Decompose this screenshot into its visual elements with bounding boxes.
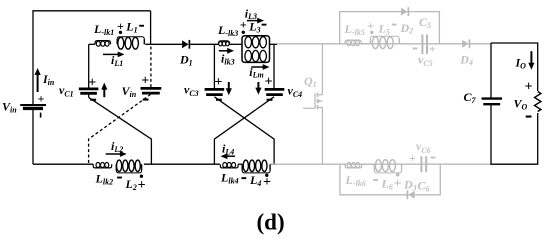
wire output box (491, 43, 538, 164)
svg-text:vC4: vC4 (288, 83, 303, 99)
svg-text:+: + (117, 19, 124, 33)
inductor L1 (117, 37, 144, 49)
svg-text:+: + (88, 75, 96, 90)
svg-text:D1: D1 (179, 53, 193, 68)
current arrow iL2 (106, 151, 127, 157)
wire cell1 left (89, 44, 95, 89)
svg-text:+: + (265, 74, 273, 89)
wire Llk4-L4 (238, 163, 242, 165)
svg-text:+: + (263, 175, 271, 190)
wire Llk6-L6 (362, 163, 375, 165)
wire bottom mid1 (144, 163, 220, 165)
svg-text:L5: L5 (378, 22, 390, 37)
node dot L2 (140, 175, 143, 178)
wire D1 to cell2 (190, 43, 218, 45)
inductor Llk4 (220, 163, 238, 168)
wire gray top (277, 43, 491, 45)
label L2 (125, 177, 137, 192)
wire D3 loop (340, 164, 440, 195)
inductor Llk3 (219, 41, 230, 46)
label C6 (418, 179, 430, 194)
label C5 - (413, 48, 418, 50)
label Llk1 (93, 22, 114, 37)
diode D1 (182, 40, 189, 49)
wire D2 loop (340, 12, 440, 44)
svg-text:+: + (394, 177, 402, 192)
svg-text:vC6: vC6 (416, 139, 431, 155)
svg-text:+: + (141, 74, 149, 89)
label C5 + (429, 42, 436, 56)
svg-text:D3: D3 (403, 178, 417, 193)
svg-text:L-lk5: L-lk5 (344, 22, 365, 37)
wire L1 to D1 (145, 43, 182, 45)
label Llk4 (220, 171, 239, 186)
wire cross solid c2b (214, 97, 274, 164)
label D2 (400, 21, 414, 36)
current arrow iL1 (103, 52, 125, 58)
current arrow iL4 (221, 153, 235, 159)
battery - tick (40, 113, 42, 118)
svg-text:+: + (214, 75, 222, 90)
label Vo (514, 97, 528, 112)
wire bottom stub right of L4 (270, 163, 276, 165)
label C4 + (265, 74, 273, 89)
label L4 (249, 173, 261, 188)
label D1 (179, 53, 193, 68)
inductor L2 (116, 160, 141, 173)
svg-text:Iin: Iin (42, 72, 55, 87)
capacitor C3 (205, 44, 225, 94)
svg-text:+: + (138, 178, 146, 193)
label Llk2 (95, 172, 114, 187)
wire Llk5-L5 (361, 43, 370, 45)
label iL3 (245, 6, 257, 21)
battery Vin (20, 105, 46, 108)
svg-text:IO: IO (515, 56, 527, 71)
wire L3 out (270, 43, 278, 45)
capacitor C6 (421, 156, 426, 172)
label Vinmid - (143, 99, 149, 101)
label + L5 - (367, 19, 396, 37)
svg-text:L-lk3: L-lk3 (217, 23, 238, 38)
svg-text:vC1: vC1 (59, 83, 74, 99)
wire Llk3 to L3 (230, 43, 243, 45)
wire top frame (33, 10, 151, 104)
label D4 (459, 52, 473, 67)
diode D4 (462, 39, 469, 48)
node dot L3 (242, 31, 245, 34)
node dot L6 (396, 173, 399, 176)
svg-text:Vin: Vin (122, 84, 137, 99)
label C1 - (90, 99, 96, 101)
svg-text:Llk4: Llk4 (220, 171, 239, 186)
label D3 (403, 178, 417, 193)
diode D2 (401, 7, 408, 16)
current arrow iL3 (247, 18, 264, 24)
wire dashed above Vin-mid (150, 47, 152, 89)
label L6 plus (394, 177, 402, 192)
svg-text:Q1: Q1 (304, 74, 317, 89)
current arrow C4 (255, 82, 261, 95)
svg-text:+: + (367, 19, 374, 33)
label iLm (249, 65, 263, 80)
svg-text:(d): (d) (257, 210, 285, 235)
label C7 (464, 90, 477, 105)
label Vo - (526, 116, 532, 118)
svg-text:D2: D2 (400, 21, 414, 36)
label C3 + (214, 75, 222, 90)
label vC1 (59, 83, 74, 99)
label Llk3 (217, 23, 238, 38)
label L4 plus (263, 175, 271, 190)
inductor Llk1 (95, 41, 111, 47)
label Iin (42, 72, 55, 87)
svg-text:L2: L2 (125, 177, 137, 192)
current arrow C3 (226, 82, 232, 95)
label L6 (381, 177, 393, 192)
svg-text:L6: L6 (381, 177, 393, 192)
label C3 - (216, 99, 222, 101)
capacitor C5 (422, 34, 427, 54)
label Llk6 (345, 173, 366, 188)
current arrow iLm (251, 64, 269, 70)
wire cross solid c2a (214, 97, 274, 164)
inductor L6 (374, 160, 401, 173)
resistor RL (535, 92, 541, 112)
label Io (515, 56, 527, 71)
label iL1 (111, 53, 123, 68)
wire C1 stub (88, 93, 90, 97)
svg-text:+: + (38, 92, 45, 106)
svg-text:+: + (409, 151, 416, 165)
svg-text:L-lk1: L-lk1 (93, 22, 114, 37)
label + L3 - (240, 17, 267, 34)
wire bottom left (33, 109, 93, 164)
wire cross solid c1 (89, 98, 152, 165)
svg-text:iL4: iL4 (222, 142, 234, 157)
battery + sign (38, 92, 45, 106)
label C6 - (431, 157, 436, 159)
capacitor C4 (265, 44, 285, 94)
current arrow C1 (101, 83, 107, 98)
svg-text:iL2: iL2 (111, 139, 123, 154)
label C1 + (88, 75, 96, 90)
current arrow Io (528, 51, 534, 70)
capacitor C7 (482, 99, 503, 105)
svg-text:ilk3: ilk3 (221, 52, 235, 67)
current arrow ilk3 (219, 48, 234, 54)
label vC5 (418, 53, 433, 69)
label Llk5 (344, 22, 365, 37)
svg-text:Llk2: Llk2 (95, 172, 114, 187)
label iL2 (111, 139, 123, 154)
capacitor C1 (79, 89, 99, 93)
svg-text:L-lk6: L-lk6 (345, 173, 366, 188)
svg-text:+: + (525, 80, 533, 95)
label vC4 (288, 83, 303, 99)
inductor L5 (370, 36, 399, 48)
label iL4 (222, 142, 234, 157)
label Vin mid (122, 84, 137, 99)
svg-text:C5: C5 (419, 15, 431, 30)
svg-text:VO: VO (514, 97, 528, 112)
label C6 + (409, 151, 416, 165)
label Q1 (304, 74, 317, 89)
label L2 minus (117, 177, 122, 179)
node dot L5 (370, 31, 373, 34)
label Vinmid + (141, 74, 149, 89)
svg-text:D4: D4 (459, 52, 473, 67)
node dot L1 (119, 31, 122, 34)
svg-text:C6: C6 (418, 179, 430, 194)
label L2 plus (138, 178, 146, 193)
label C5 (419, 15, 431, 30)
transistor Q1 (303, 44, 323, 164)
label C4 - (267, 99, 273, 101)
label ilk3 (221, 52, 235, 67)
svg-text:Vin: Vin (2, 100, 17, 115)
svg-text:C7: C7 (464, 90, 477, 105)
diode D3 (407, 190, 414, 199)
inductor L4 (242, 160, 270, 173)
caption (d) (257, 210, 285, 235)
label L6 minus (373, 179, 378, 181)
wire gray bottom (271, 163, 491, 165)
label Vin source (2, 100, 17, 115)
svg-text:+: + (240, 17, 247, 31)
transformer L3/Lm block (242, 36, 270, 63)
label vC6 (416, 139, 431, 155)
inductor Llk6 (345, 163, 362, 168)
node dot L4 (265, 174, 268, 177)
label Vo + (525, 80, 533, 95)
svg-text:L1: L1 (125, 20, 137, 35)
inductor Llk2 (93, 163, 112, 168)
inductor Llk5 (345, 40, 361, 46)
wire cross dashed c1 (89, 94, 151, 164)
label + L1 - (117, 19, 144, 34)
label L4 minus (241, 177, 246, 179)
svg-text:vC3: vC3 (184, 83, 199, 99)
current arrow Iin (35, 68, 41, 92)
capacitor Vin-mid (141, 88, 162, 93)
svg-text:L4: L4 (249, 173, 261, 188)
svg-text:+: + (429, 42, 436, 56)
label vC3 (184, 83, 199, 99)
